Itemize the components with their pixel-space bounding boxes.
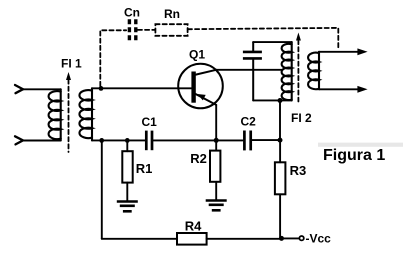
node tank bottom junction xyxy=(278,98,283,103)
svg-text:Rn: Rn xyxy=(164,7,180,21)
wire to Vcc terminal xyxy=(282,237,300,239)
wire collector xyxy=(216,69,282,71)
wire neutralization dashed middle xyxy=(138,29,155,31)
wire neutralization dashed right xyxy=(188,28,338,50)
wire C1 to emitter node xyxy=(153,139,242,141)
svg-text:FI 2: FI 2 xyxy=(291,111,312,125)
wire base (FI1 to Q1 base) xyxy=(92,87,191,89)
node Vcc junction xyxy=(279,236,284,241)
ground R1 xyxy=(117,202,138,212)
node base/neutralization tap xyxy=(99,86,104,91)
wire bottom right xyxy=(207,238,282,240)
svg-text:FI 1: FI 1 xyxy=(61,57,82,71)
wire input bottom xyxy=(23,140,61,142)
transformer FI1 primary winding xyxy=(49,89,61,140)
node emitter junction xyxy=(214,138,219,143)
svg-text:Cn: Cn xyxy=(124,6,140,20)
svg-text:R2: R2 xyxy=(190,151,207,166)
resistor Rn xyxy=(155,24,187,36)
wire left vertical drop xyxy=(101,140,103,238)
transistor Q1 xyxy=(178,64,223,109)
wire output bottom xyxy=(319,88,359,90)
FI1 adjustable core arrow xyxy=(66,72,71,152)
scan smudge xyxy=(318,143,403,147)
svg-text:C1: C1 xyxy=(142,115,158,129)
tank capacitor xyxy=(243,42,262,100)
transformer FI1 secondary winding xyxy=(79,88,92,140)
wire neutralization dashed left xyxy=(100,30,126,86)
wire input top xyxy=(23,88,61,90)
wire emitter drop xyxy=(215,105,217,140)
svg-text:Q1: Q1 xyxy=(189,48,205,62)
input arrow bottom xyxy=(15,136,23,144)
wire tank drop xyxy=(279,101,281,141)
transformer FI2 secondary winding xyxy=(308,52,319,90)
ground R2 xyxy=(206,201,227,211)
output arrow bottom xyxy=(357,86,367,93)
capacitor C2 xyxy=(244,131,250,151)
node left drop junction xyxy=(99,138,104,143)
input arrow top xyxy=(15,85,23,93)
svg-text:-Vcc: -Vcc xyxy=(306,231,332,245)
resistor R4 xyxy=(177,233,207,245)
node R1 top junction xyxy=(125,138,130,143)
resistor R2 xyxy=(210,140,220,199)
output arrow top xyxy=(357,48,367,55)
wire bottom left xyxy=(102,238,177,240)
FI2 adjustable core arrow xyxy=(296,33,301,102)
svg-text:Figura 1: Figura 1 xyxy=(323,147,385,164)
wire emitter row left xyxy=(92,139,145,141)
svg-text:C2: C2 xyxy=(241,115,257,129)
wire output top xyxy=(319,51,359,53)
svg-text:R4: R4 xyxy=(185,219,202,234)
resistor R3 xyxy=(275,140,286,238)
transformer FI2 primary winding xyxy=(282,42,292,100)
resistor R1 xyxy=(122,140,132,200)
wire C2 to R3 node xyxy=(252,139,280,141)
svg-text:R3: R3 xyxy=(290,163,307,178)
capacitor C1 xyxy=(146,131,152,151)
wire tank bottom xyxy=(253,99,292,101)
svg-text:R1: R1 xyxy=(136,161,153,176)
capacitor Cn xyxy=(129,19,135,41)
terminal -Vcc xyxy=(299,236,303,240)
wire tank top xyxy=(253,41,292,43)
node C2/R3 junction xyxy=(278,138,283,143)
